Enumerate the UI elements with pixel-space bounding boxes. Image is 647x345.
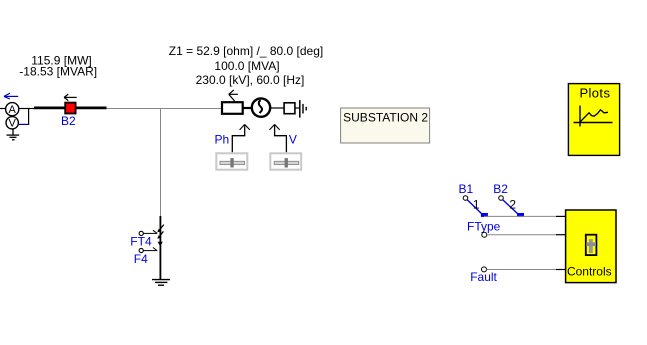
svg-text:FType: FType — [467, 219, 501, 233]
svg-text:230.0 [kV], 60.0 [Hz]: 230.0 [kV], 60.0 [Hz] — [196, 73, 305, 87]
breaker B2 (closed, red) — [65, 103, 75, 114]
wire: bus to source (gray) — [107, 108, 222, 110]
wire: stub left edge to ammeter — [0, 108, 6, 110]
wire stub into controls (top) — [556, 215, 568, 217]
switch B1 lever — [467, 200, 482, 214]
arrow: blue power-flow arrow — [4, 93, 18, 99]
svg-text:B1: B1 — [459, 182, 474, 196]
wire stub into controls (middle) — [556, 234, 568, 236]
arrow: variable tap on source impedance — [229, 90, 238, 101]
svg-text:F4: F4 — [134, 252, 148, 266]
svg-text:B2: B2 — [493, 182, 508, 196]
ground: meters — [7, 129, 20, 140]
wire: ammeter to bus — [19, 108, 34, 110]
wire: branch down to fault (gray) — [160, 108, 162, 216]
svg-text:100.0 [MVA]: 100.0 [MVA] — [214, 59, 279, 73]
switch B2 lever — [503, 200, 518, 214]
wire: Ph slider to source with up arrow — [232, 124, 250, 152]
svg-text:Z1 = 52.9 [ohm] /_ 80.0 [deg]: Z1 = 52.9 [ohm] /_ 80.0 [deg] — [169, 44, 323, 58]
switch B1 contact — [481, 213, 488, 217]
wire: impedance to source circle (thick) — [243, 107, 252, 109]
wire: switches to controls — [484, 215, 557, 217]
wire: meter junction vertical — [28, 109, 30, 125]
switch B1 node — [463, 196, 468, 201]
wire: V slider to source with up arrow — [270, 124, 287, 152]
wire: voltmeter tap (blue) — [19, 123, 29, 125]
svg-text:SUBSTATION 2: SUBSTATION 2 — [343, 111, 428, 125]
controls module (yellow) — [566, 210, 616, 283]
bus: thick segment right of breaker — [76, 107, 106, 110]
source neutral box — [284, 103, 295, 114]
ground: source neutral (sideways bars) — [300, 100, 306, 118]
wire: FT4 tap — [143, 230, 157, 233]
wire stub into controls (bottom) — [556, 269, 568, 271]
svg-text:Ph: Ph — [215, 132, 230, 146]
voltmeter V — [6, 117, 18, 130]
node F4 — [139, 248, 143, 252]
ground: fault — [152, 280, 170, 286]
fault F4 symbol arrows — [157, 225, 164, 247]
node FType — [482, 232, 487, 237]
fault branch (black) — [159, 216, 161, 280]
svg-text:Controls: Controls — [567, 265, 612, 279]
switch B2 node — [499, 196, 504, 201]
bus: thick segment left of breaker — [34, 107, 65, 110]
switch B2 contact — [517, 213, 524, 217]
ammeter A — [6, 103, 19, 116]
wire: Fault to controls — [487, 269, 558, 271]
source U1 (AC source circle with S glyph) — [252, 98, 270, 116]
svg-text:FT4: FT4 — [130, 235, 152, 249]
svg-text:2: 2 — [509, 198, 516, 212]
svg-text:1: 1 — [473, 198, 480, 212]
svg-text:Plots: Plots — [579, 85, 610, 100]
svg-text:A: A — [9, 104, 17, 116]
source impedance Z1 rectangle — [222, 102, 243, 114]
node FT4 — [139, 231, 143, 235]
wire: F4 tap — [143, 248, 157, 251]
slider Ph — [216, 153, 247, 169]
wire: source to neutral box — [271, 107, 285, 109]
wire: neutral box to ground — [295, 107, 300, 109]
svg-text:Fault: Fault — [470, 270, 497, 284]
plots module (yellow) — [568, 84, 619, 156]
slider V — [270, 153, 301, 169]
arrow above breaker B2 — [64, 94, 77, 101]
node Fault — [482, 267, 487, 272]
svg-text:B2: B2 — [61, 114, 76, 128]
svg-text:-18.53 [MVAR]: -18.53 [MVAR] — [19, 64, 97, 78]
label: SUBSTATION 2 annotation box — [341, 108, 430, 143]
svg-text:V: V — [289, 132, 297, 146]
wire: FType to controls — [487, 234, 557, 236]
svg-text:V: V — [9, 118, 17, 130]
